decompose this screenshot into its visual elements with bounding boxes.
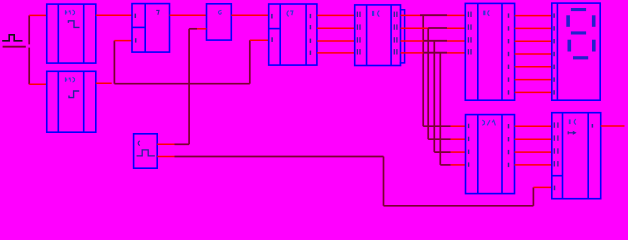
wire U7 segment 1 to display bbox=[515, 15, 552, 17]
HG1 input pin ticks bbox=[553, 13, 555, 94]
wire U6 Q4 to U7 (bright-dark-bright) bbox=[401, 52, 466, 54]
U7 output pin ticks bbox=[508, 13, 510, 94]
wire G2 output 1 stub bbox=[157, 143, 174, 145]
U7 input pin ticks bbox=[468, 12, 471, 55]
clock generator G2 bbox=[134, 134, 158, 168]
U9 label glyphs bbox=[569, 119, 576, 124]
wire U6 Q3 to U7 (bright-dark-bright) bbox=[401, 40, 466, 42]
wire U7 segment 3 to display bbox=[515, 40, 552, 42]
U2 rising-step glyph bbox=[69, 91, 79, 98]
HG1 digit segment c (bottom-right) bbox=[592, 40, 596, 52]
wire into U5 input B bbox=[250, 39, 269, 41]
U9 clock pin tick bbox=[554, 186, 556, 191]
wire U7 segment 2 to display bbox=[515, 27, 552, 29]
U5 pin ticks bbox=[272, 14, 311, 55]
wire U5 Q2 to U6 bbox=[317, 27, 355, 29]
HG1 digit segment d (bottom) bbox=[573, 56, 588, 59]
wire U8 output 2 to U9 bbox=[515, 138, 552, 140]
HG1 digit segment a (top) bbox=[571, 8, 586, 11]
G2 label glyph bbox=[138, 141, 139, 145]
U3 pin ticks bbox=[134, 14, 136, 43]
U5 label glyphs bbox=[287, 11, 293, 16]
wire to U1 input bbox=[29, 14, 47, 16]
U9 arrow glyph bbox=[568, 131, 577, 135]
U8 output pin ticks bbox=[508, 124, 510, 167]
register U6 bbox=[355, 5, 401, 66]
wire U9 output bbox=[601, 125, 625, 127]
HG1 digit segment e (bottom-left) bbox=[568, 40, 572, 52]
wire to U2 input bbox=[29, 83, 47, 85]
U9 output pin tick bbox=[591, 124, 593, 128]
comparator U9 (bottom right) bbox=[552, 113, 601, 199]
U1 falling-step glyph bbox=[68, 21, 78, 28]
pulse source G1 (input step symbol) bbox=[3, 35, 26, 47]
wire U6 clock feedback (blue) bbox=[401, 10, 405, 63]
wire U7 segment 6 to display bbox=[515, 79, 552, 81]
U9 input pin ticks bbox=[554, 122, 558, 166]
U6 output pin ticks bbox=[394, 12, 397, 55]
decoder U8 (bottom) bbox=[466, 115, 515, 194]
U6 input pin ticks bbox=[357, 12, 360, 55]
U1 label glyphs bbox=[65, 10, 75, 15]
wire clock net to U4 input B bbox=[189, 29, 206, 145]
wire tap 2 into U8 input bbox=[428, 138, 465, 140]
wire G2 output 2 long run bbox=[175, 157, 534, 206]
decoder U7 bbox=[465, 3, 514, 100]
wire net U2out vertical to U3 input B bbox=[114, 40, 249, 83]
G2 pulse glyph bbox=[137, 150, 154, 156]
wire tap 4 vertical down bbox=[439, 53, 441, 165]
wire U7 segment 4 to display bbox=[515, 53, 552, 55]
U2 label glyphs bbox=[65, 77, 75, 81]
U7 label glyphs bbox=[483, 11, 489, 16]
U6 label glyphs bbox=[372, 11, 379, 16]
HG1 digit segment f (top-left) bbox=[566, 15, 570, 26]
HG1 digit segment b (top-right) bbox=[592, 15, 596, 26]
one-shot U2 (rising-edge shaper) bbox=[47, 71, 96, 132]
U4 label glyph bbox=[218, 11, 221, 15]
wire tap 4 into U8 input bbox=[440, 164, 465, 166]
wire G1 output vertical bbox=[28, 15, 30, 84]
wire G2 output 2 stub bbox=[157, 156, 174, 158]
U3 label glyph bbox=[157, 10, 159, 14]
wire U5 Q4 to U6 bbox=[317, 52, 355, 54]
wire U8 output 4 to U9 bbox=[515, 164, 552, 166]
wire U7 segment 5 to display bbox=[515, 66, 552, 68]
gate U3 (2-input) bbox=[132, 4, 170, 53]
wire tap 2 vertical down bbox=[427, 28, 429, 139]
wire clock into U9 bottom pin bbox=[533, 186, 551, 188]
wire tap 3 into U8 input bbox=[434, 151, 465, 153]
wire into U3 input B bbox=[114, 40, 132, 42]
wire U5 Q1 to U6 bbox=[317, 14, 355, 16]
wire U7 segment 7 to display bbox=[515, 91, 552, 93]
wire U1 output to U3 input A bbox=[96, 14, 132, 16]
counter U5 bbox=[269, 4, 317, 65]
wire tap 1 vertical down bbox=[422, 15, 424, 126]
wire tap 1 into U8 input bbox=[423, 125, 465, 127]
U8 label glyphs bbox=[483, 120, 495, 125]
wire U2 output stub bbox=[96, 82, 112, 84]
wire U6 Q2 to U7 (bright-dark-bright) bbox=[401, 27, 466, 29]
wire U3 output to U4 input A bbox=[170, 14, 207, 16]
wire U8 output 1 to U9 bbox=[515, 125, 552, 127]
wire G2 output 1 to clock net bbox=[175, 143, 190, 145]
gate U4 bbox=[207, 4, 232, 40]
wire U8 output 3 to U9 bbox=[515, 151, 552, 153]
HG1 digit segment g (middle) bbox=[571, 31, 586, 34]
wire U6 Q1 to U7 (bright-dark-bright) bbox=[401, 14, 466, 16]
wire tap 3 vertical down bbox=[433, 41, 435, 152]
7-segment display HG1 bbox=[552, 3, 600, 100]
wire U4 output to U5 input A bbox=[231, 14, 268, 16]
wire U5 Q3 to U6 bbox=[317, 40, 355, 42]
one-shot U1 (falling-edge shaper) bbox=[47, 4, 96, 63]
U8 input pin ticks bbox=[468, 124, 470, 167]
